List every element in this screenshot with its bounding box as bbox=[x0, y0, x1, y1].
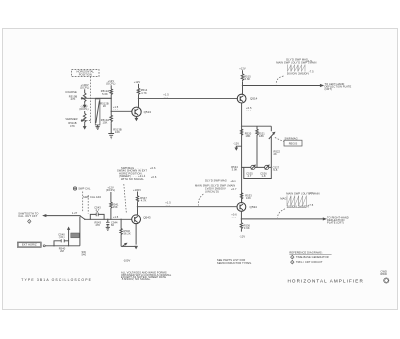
svg-text:(DCPL): (DCPL) bbox=[106, 188, 115, 192]
resistor R540A boxed label bbox=[68, 228, 80, 241]
linkage ticks to wipers bbox=[86, 98, 91, 120]
dashed pointer note C to line bbox=[198, 194, 203, 206]
svg-text:16K: 16K bbox=[246, 196, 251, 200]
wire +12V down bbox=[110, 85, 112, 89]
svg-text:REFERENCE DIAGRAMS:: REFERENCE DIAGRAMS: bbox=[289, 251, 322, 255]
label R540 below ext line bbox=[59, 246, 66, 253]
note block HORIZ DISPLAY switch detail bbox=[117, 166, 157, 181]
svg-text:-100V: -100V bbox=[123, 258, 131, 262]
label +1.5 on line to Q534 bbox=[165, 200, 171, 206]
svg-text:1-8: 1-8 bbox=[261, 174, 266, 178]
reference diamond item 2 bbox=[291, 260, 323, 264]
wire Q543 emitter down bbox=[135, 224, 137, 249]
wire pot wiper to gain network bbox=[85, 97, 112, 99]
ground under R512B bbox=[96, 125, 100, 129]
label TP +6.5 below Q514 bbox=[246, 106, 252, 113]
junction dot Q543 collector node bbox=[137, 206, 138, 207]
junction dot base node bbox=[111, 111, 112, 112]
junction dot network top bbox=[241, 126, 242, 127]
ground under R513B bbox=[108, 123, 114, 139]
svg-text:VERNIER: VERNIER bbox=[65, 117, 77, 121]
wire jack to switch bbox=[45, 245, 80, 247]
connector jack circle bbox=[43, 245, 45, 247]
resistor R536 below Q534 bbox=[240, 223, 250, 232]
svg-text:TIME-BASE GENERATOR: TIME-BASE GENERATOR bbox=[296, 255, 329, 259]
svg-text:+15: +15 bbox=[308, 191, 313, 195]
label +1.5 on line bbox=[163, 92, 169, 98]
network bottom bar wire bbox=[242, 166, 272, 168]
svg-text:56.2K: 56.2K bbox=[124, 232, 131, 236]
svg-text:- - -: - - - bbox=[232, 216, 237, 219]
svg-text:- - -: - - - bbox=[247, 109, 252, 112]
svg-text:50V/DIV 2MS/DIV: 50V/DIV 2MS/DIV bbox=[287, 205, 309, 209]
svg-text:MAG: MAG bbox=[280, 196, 286, 200]
note see parts list bbox=[217, 258, 252, 265]
junction dot bottom bar bbox=[135, 246, 136, 247]
test point SWP CAL symbol bbox=[73, 187, 91, 191]
label TO LEFT DEFL PLATE bbox=[325, 82, 352, 91]
svg-text:4.7: 4.7 bbox=[248, 174, 252, 178]
svg-text:POSITION: POSITION bbox=[79, 73, 92, 77]
node -100V (DCPL) label bbox=[79, 105, 88, 112]
resistor R533 above Q534 bbox=[240, 193, 252, 202]
svg-text:+1.5: +1.5 bbox=[113, 215, 119, 219]
junction dot Q534 output node bbox=[241, 218, 242, 219]
svg-text:EXT HORIZ: EXT HORIZ bbox=[22, 243, 37, 247]
svg-text:2K: 2K bbox=[274, 152, 278, 156]
label TO RIGHT DEFL PLATE bbox=[327, 215, 349, 224]
waveform note A (upper output line) bbox=[276, 57, 316, 75]
label TO CAL SWP with left arrow bbox=[18, 211, 38, 218]
svg-text:+0.6: +0.6 bbox=[150, 166, 156, 170]
svg-text:(.01): (.01) bbox=[59, 235, 65, 239]
svg-text:Q513: Q513 bbox=[144, 110, 152, 114]
wire Q534 collector down bbox=[240, 211, 242, 222]
svg-text:82: 82 bbox=[111, 223, 115, 227]
dashed link R522 to SWP MAG REGIS box bbox=[275, 138, 284, 142]
svg-text:+12V: +12V bbox=[239, 67, 246, 71]
trimmer capacitor C526 bbox=[260, 165, 279, 178]
svg-text:+0.7: +0.7 bbox=[231, 187, 237, 191]
svg-text:MAIN SWP | DLY'D | MAIN: MAIN SWP | DLY'D | MAIN bbox=[286, 191, 319, 195]
wire Q513 emitter down with supply arrow bbox=[135, 117, 137, 121]
note voltages measured bbox=[121, 271, 172, 282]
junction dots C543 loop bbox=[90, 219, 91, 220]
trimmer capacitor C525 bbox=[246, 165, 255, 178]
node +100V (DCPL) label top of position divider bbox=[80, 83, 89, 90]
waveform note C (Q534 base line) bbox=[195, 179, 237, 194]
label +1.5 base level bbox=[113, 105, 119, 111]
waveform note B (lower output line) bbox=[280, 191, 319, 209]
wire EXT contact vertical bbox=[79, 217, 81, 246]
svg-text:SWP CAL ADJ: SWP CAL ADJ bbox=[83, 195, 102, 199]
branch -12V left of main vertical bbox=[233, 141, 241, 149]
wire bottom bar R546 to emitter bbox=[121, 245, 136, 247]
svg-text:3.9K: 3.9K bbox=[232, 167, 238, 171]
svg-text:(DCPL): (DCPL) bbox=[80, 86, 89, 90]
wire +100V to R510B bbox=[84, 89, 86, 93]
svg-text:18K: 18K bbox=[259, 134, 264, 138]
svg-text:5.6K: 5.6K bbox=[102, 92, 108, 96]
svg-text:- - -: - - - bbox=[166, 204, 171, 207]
resistor R513B bbox=[110, 111, 122, 134]
svg-text:+12V: +12V bbox=[134, 80, 141, 84]
node +12V (DCPL) label above R541 bbox=[106, 186, 115, 193]
svg-text:WITH NO SIGNAL: WITH NO SIGNAL bbox=[121, 177, 144, 181]
wire R512A to wiper junction bbox=[110, 95, 112, 112]
svg-text:+1.5: +1.5 bbox=[306, 59, 312, 63]
junction dot network bottom left bbox=[241, 167, 242, 168]
svg-text:+1m: +1m bbox=[230, 179, 235, 183]
svg-text:2K: 2K bbox=[103, 104, 107, 108]
wire output to left deflection plate with arrow bbox=[243, 85, 323, 87]
svg-text:(DCPL): (DCPL) bbox=[106, 82, 115, 86]
svg-text:REGIS: REGIS bbox=[289, 141, 298, 145]
resistor R547 bbox=[136, 192, 147, 203]
wire collector node to Q534 base (long) bbox=[138, 206, 238, 208]
wire main base line to Q543 bbox=[85, 218, 132, 220]
trimmer shield box bbox=[244, 167, 271, 178]
node +12V (DCPL) label top of gain divider bbox=[106, 79, 115, 86]
svg-text:- - -: - - - bbox=[164, 96, 169, 99]
resistor R515 bbox=[241, 74, 251, 82]
resistor R541 bbox=[110, 192, 119, 219]
linkage dashed diagonal from display block bbox=[124, 184, 127, 213]
svg-text:4.7K: 4.7K bbox=[141, 91, 147, 95]
wire collector node to Q514 base (long) bbox=[139, 97, 238, 99]
reference diagrams heading bbox=[289, 251, 331, 255]
wire R547 to Q543 collector bbox=[137, 203, 139, 215]
connector EXT HORIZ INPUT box bbox=[17, 242, 41, 247]
gain network top bar wire bbox=[242, 125, 272, 127]
svg-text:47K: 47K bbox=[70, 124, 75, 128]
resistor R512A bbox=[101, 89, 113, 96]
transistor Q513 bbox=[132, 107, 151, 116]
capacitor C540 bypass loop bbox=[54, 232, 69, 245]
resistor R520 (on main vertical) bbox=[240, 129, 251, 138]
label SW540 bbox=[82, 250, 87, 257]
junction dot R541 line bbox=[110, 219, 111, 220]
linkage dashed line from POSITION knob to pots bbox=[90, 77, 92, 124]
svg-text:47K: 47K bbox=[95, 223, 100, 227]
wire +12V to R514 bbox=[138, 84, 140, 88]
svg-text:3.9K: 3.9K bbox=[244, 226, 250, 230]
wire base node to Q513 bbox=[111, 110, 132, 112]
svg-text:18K: 18K bbox=[246, 134, 251, 138]
svg-text:HORIZONTAL AMPLIFIER: HORIZONTAL AMPLIFIER bbox=[288, 278, 364, 283]
switch SW540 blade bbox=[79, 215, 85, 220]
variable resistor R522 swp cal (right leg) bbox=[269, 126, 281, 167]
svg-text:50V/DIV 2MS/DIV: 50V/DIV 2MS/DIV bbox=[287, 72, 309, 76]
svg-text:-12V: -12V bbox=[239, 234, 245, 238]
svg-text:15K: 15K bbox=[113, 205, 118, 209]
linkage dashed second wafer bbox=[87, 195, 89, 214]
label +0.6 left of Q534 bbox=[231, 213, 237, 219]
svg-text:1.27: 1.27 bbox=[72, 211, 78, 215]
wire to calibrator with left arrow bbox=[44, 215, 80, 217]
svg-text:540: 540 bbox=[82, 252, 87, 256]
supply arrow -100V below R510B bbox=[84, 103, 86, 107]
svg-text:+7.5: +7.5 bbox=[308, 203, 314, 207]
capacitor C544 to ground bbox=[106, 219, 118, 228]
svg-text:RWD: RWD bbox=[381, 272, 387, 276]
svg-text:(UNCAL'D): (UNCAL'D) bbox=[205, 190, 219, 194]
wire R515 to Q514 collector bbox=[241, 82, 244, 94]
wire output to right deflection plate with arrow bbox=[241, 218, 325, 220]
potentiometer R512B gain adj (box style) bbox=[95, 98, 111, 125]
svg-text:Q543: Q543 bbox=[143, 215, 151, 219]
wire Q514 emitter down to network bbox=[241, 103, 243, 203]
wire R514 to Q513 collector bbox=[138, 94, 140, 107]
svg-text:SWP/MAG: SWP/MAG bbox=[285, 136, 298, 140]
svg-text:DLY'D SWP MAG: DLY'D SWP MAG bbox=[205, 179, 227, 183]
svg-text:47K: 47K bbox=[71, 97, 76, 101]
svg-text:TYPE 3B1A OSCILLOSCOPE: TYPE 3B1A OSCILLOSCOPE bbox=[21, 278, 92, 282]
wire -100V to R511B bbox=[84, 111, 86, 114]
junction dot Q513 collector node bbox=[138, 98, 139, 99]
transistor Q543 bbox=[132, 215, 151, 224]
transistor Q534 bbox=[237, 203, 257, 212]
svg-text:SWP CAL: SWP CAL bbox=[78, 187, 91, 191]
svg-text:Q514: Q514 bbox=[250, 97, 258, 101]
label R543 below line bbox=[94, 220, 101, 227]
potentiometer R511B VERNIER (lower position pot) bbox=[65, 114, 86, 128]
svg-text:+0.6: +0.6 bbox=[151, 175, 157, 179]
svg-text:CAL. OUT CKT: CAL. OUT CKT bbox=[18, 214, 37, 218]
linkage dashed from SWP CAL to switch bbox=[82, 192, 84, 213]
capacitor C543 bypass loop bbox=[90, 205, 104, 219]
resistor R514 bbox=[137, 88, 148, 95]
variable resistor R546 bbox=[120, 219, 131, 247]
svg-text:PLATE (CRT): PLATE (CRT) bbox=[327, 221, 344, 225]
title HORIZONTAL AMPLIFIER bbox=[288, 269, 389, 283]
dashed pointer note A to line bbox=[276, 76, 283, 84]
svg-text:4.7: 4.7 bbox=[96, 208, 100, 212]
potentiometer R510B COARSE (upper position pot) bbox=[65, 90, 86, 103]
svg-text:SEMICONDUCTOR TYPES.: SEMICONDUCTOR TYPES. bbox=[217, 261, 252, 265]
svg-text:5.6K: 5.6K bbox=[245, 77, 251, 81]
ground under C544 bbox=[106, 227, 110, 230]
svg-text:COARSE: COARSE bbox=[65, 90, 77, 94]
svg-text:(DCPL): (DCPL) bbox=[79, 107, 88, 111]
svg-text:+100V: +100V bbox=[133, 188, 141, 192]
supply arrow below R511B bbox=[84, 123, 86, 128]
transistor Q514 bbox=[237, 94, 257, 103]
box SWP MAG REGIS bbox=[284, 140, 302, 146]
svg-text:.5-5: .5-5 bbox=[273, 168, 278, 172]
junction dot wiper line bbox=[111, 98, 112, 99]
reference diamond 1 below label bbox=[28, 220, 31, 224]
svg-text:.5 MS/DIV, NO SIGNAL.: .5 MS/DIV, NO SIGNAL. bbox=[121, 277, 151, 281]
svg-text:Q534: Q534 bbox=[250, 205, 258, 209]
svg-text:2M: 2M bbox=[60, 249, 64, 253]
HORIZONTAL POSITION control dashed box bbox=[72, 70, 100, 77]
svg-text:(CRT): (CRT) bbox=[325, 87, 333, 91]
reference diamond item 1 bbox=[291, 255, 329, 259]
resistor R521 (middle leg) bbox=[256, 126, 265, 167]
junction dots ext line bbox=[53, 245, 54, 246]
wire +12V to R515 bbox=[242, 70, 244, 74]
dashed pointer note B to line bbox=[278, 209, 285, 218]
svg-text:15K: 15K bbox=[103, 121, 108, 125]
junction dot Q514 collector output node bbox=[242, 85, 243, 86]
svg-text:10K: 10K bbox=[115, 130, 120, 134]
svg-text:-12V: -12V bbox=[233, 141, 239, 145]
svg-text:-7.5: -7.5 bbox=[309, 69, 314, 73]
svg-text:TRIG / CRT CIRCUIT: TRIG / CRT CIRCUIT bbox=[296, 260, 323, 264]
label R534A left of network bbox=[231, 165, 238, 172]
svg-text:4.7K: 4.7K bbox=[141, 199, 147, 203]
